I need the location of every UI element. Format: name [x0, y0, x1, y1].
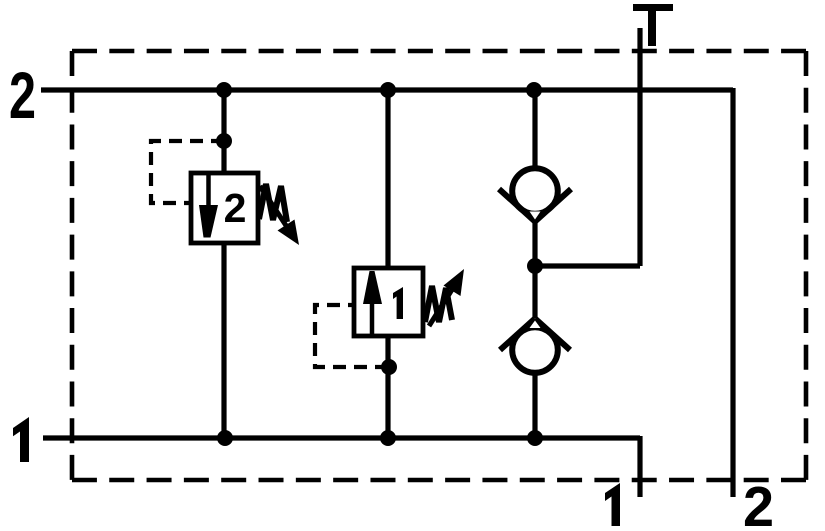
- svg-text:2: 2: [9, 58, 36, 132]
- svg-text:2: 2: [224, 185, 247, 231]
- svg-text:2: 2: [743, 475, 774, 531]
